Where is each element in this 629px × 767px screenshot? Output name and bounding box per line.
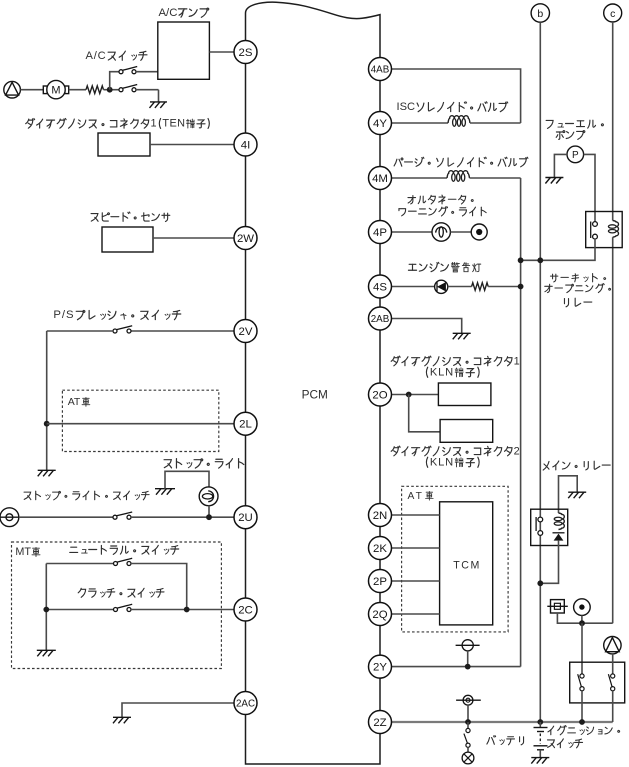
svg-text:2P: 2P [373, 576, 387, 588]
svg-text:A/C: A/C [159, 7, 178, 19]
svg-text:2Q: 2Q [372, 609, 387, 621]
svg-text:2AB: 2AB [371, 314, 390, 325]
svg-text:4Y: 4Y [373, 118, 387, 130]
svg-text:2Z: 2Z [373, 717, 386, 729]
svg-text:2O: 2O [372, 390, 387, 402]
svg-text:2N: 2N [373, 510, 388, 522]
svg-text:A/C: A/C [86, 50, 107, 62]
svg-text:4I: 4I [241, 140, 251, 152]
svg-text:2V: 2V [239, 326, 253, 338]
svg-text:2W: 2W [237, 233, 254, 245]
svg-text:2: 2 [514, 445, 520, 457]
svg-text:1: 1 [514, 355, 520, 367]
svg-text:TCM: TCM [453, 559, 481, 571]
svg-text:4AB: 4AB [371, 64, 390, 75]
svg-text:2U: 2U [238, 512, 253, 524]
svg-text:4P: 4P [373, 227, 387, 239]
svg-text:2AC: 2AC [236, 698, 255, 709]
svg-text:PCM: PCM [302, 388, 328, 402]
svg-text:4S: 4S [373, 282, 387, 294]
svg-text:ISC: ISC [397, 101, 416, 113]
svg-text:2C: 2C [238, 605, 253, 617]
svg-text:2Y: 2Y [373, 662, 387, 674]
svg-text:1: 1 [151, 118, 157, 130]
svg-text:AT: AT [68, 397, 81, 408]
svg-text:MT: MT [15, 546, 31, 558]
svg-text:AT: AT [408, 491, 424, 502]
svg-text:M: M [51, 85, 60, 97]
svg-text:P/S: P/S [53, 309, 74, 321]
svg-text:TEN: TEN [162, 118, 185, 130]
svg-text:c: c [610, 8, 615, 20]
svg-text:KLN: KLN [430, 457, 454, 469]
svg-text:2L: 2L [239, 419, 252, 431]
svg-text:2K: 2K [373, 543, 387, 555]
svg-text:2S: 2S [239, 47, 253, 59]
svg-text:P: P [572, 150, 579, 161]
svg-text:b: b [537, 8, 543, 20]
svg-text:4M: 4M [372, 173, 388, 185]
svg-text:KLN: KLN [430, 367, 454, 379]
